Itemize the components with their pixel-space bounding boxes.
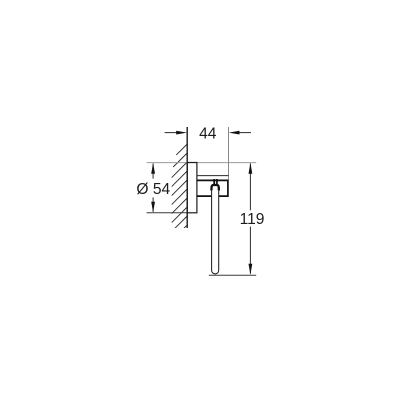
dim Ø54: top arrowhead: [151, 163, 155, 174]
arm body: [197, 180, 228, 196]
top reference line (extension line for 44 / Ø54 / 119): [147, 162, 257, 164]
dim Ø54: line upper segment: [152, 164, 154, 179]
119 bottom extension line: [209, 274, 256, 276]
wall hatching: [172, 144, 188, 250]
dim 119: line upper segment: [249, 164, 251, 211]
ring neck: [213, 179, 215, 185]
dim 44: right tail: [239, 132, 251, 134]
ring top cap: [212, 185, 219, 191]
wall line: [186, 127, 188, 228]
escutcheon plate (side view, Ø54): [187, 163, 197, 213]
44 right extension line: [228, 127, 230, 180]
dim Ø54: bottom arrowhead: [151, 202, 155, 213]
dim 119: top arrowhead: [249, 163, 253, 174]
dim 44: right arrowhead: [229, 131, 240, 135]
arm top edge: [197, 175, 229, 177]
dim 44: left arrowhead: [176, 131, 187, 135]
ring tube: [212, 190, 219, 274]
dim 119: bottom arrowhead: [249, 264, 253, 275]
svg-text:119: 119: [240, 211, 265, 228]
svg-text:44: 44: [199, 125, 217, 142]
dim 119: line lower segment: [249, 227, 251, 274]
dim Ø54: line lower segment: [152, 197, 154, 211]
Ø54 bottom extension line: [147, 212, 188, 214]
dim 44: left tail: [165, 132, 177, 134]
svg-text:Ø 54: Ø 54: [136, 181, 170, 198]
